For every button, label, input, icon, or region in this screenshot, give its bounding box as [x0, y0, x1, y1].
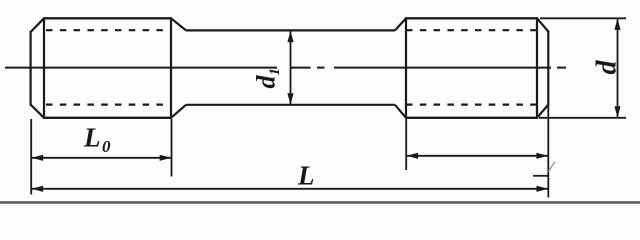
- taper shank-to-right top: [395, 18, 406, 30]
- dimension d: top arrowhead: [614, 18, 620, 30]
- left thread minor-diameter dashed line bottom: [46, 103, 171, 105]
- svg-text:d: d: [592, 60, 623, 75]
- dimension d1: bottom arrowhead: [287, 93, 293, 105]
- stud body: left end chamfer top diagonal: [31, 18, 44, 32]
- dimension L0: dimension line: [31, 157, 171, 159]
- faint slash mark: [549, 162, 556, 172]
- dimension b: right arrowhead: [536, 153, 548, 159]
- dimension d: bottom extension line: [539, 117, 626, 119]
- right end face: [547, 31, 549, 106]
- right threaded section bottom edge: [406, 117, 538, 119]
- svg-text:L0: L0: [83, 123, 111, 157]
- dimension b: left arrowhead: [407, 153, 419, 159]
- right end chamfer top diagonal: [537, 18, 548, 31]
- dimension d: bottom arrowhead: [614, 106, 620, 118]
- taper shank-to-right bottom: [395, 105, 406, 118]
- left thread minor-diameter dashed line top: [46, 29, 171, 31]
- svg-text:L: L: [297, 161, 315, 191]
- right end chamfer bottom diagonal: [537, 105, 548, 118]
- right chamfer edge vertical: [536, 17, 538, 119]
- centerline segment 4: [334, 67, 551, 69]
- dimension b (right thread length): dimension line: [406, 155, 548, 157]
- centerline dash 5: [557, 67, 566, 69]
- bottom grey separator bar: [0, 201, 640, 204]
- extension line of right thread start (x=406): [405, 119, 407, 170]
- dimension L0: right arrowhead: [160, 155, 172, 161]
- svg-text:d1: d1: [252, 68, 284, 89]
- stud body: left chamfer edge vertical: [43, 17, 45, 119]
- dimension d1: top arrowhead: [287, 31, 293, 42]
- taper left-to-shank bottom: [171, 105, 186, 118]
- left thread runout vertical: [170, 17, 172, 119]
- stud body: left end chamfer bottom diagonal: [31, 105, 44, 118]
- short tick line above L arrow: [533, 175, 549, 177]
- right thread start vertical: [405, 17, 407, 119]
- dimension d1: vertical dimension line: [290, 32, 292, 104]
- dimension L: left arrowhead: [32, 186, 43, 192]
- extension line left (x=31): [30, 119, 32, 195]
- taper left-to-shank top: [171, 18, 186, 30]
- centerline dash 2: [291, 67, 311, 69]
- dimension L: dimension line: [31, 188, 548, 190]
- dimension d: top extension line: [540, 17, 626, 19]
- shank top edge: [186, 29, 395, 31]
- extension line of left thread end (x=171.5): [171, 119, 173, 177]
- centerline segment 1: [5, 67, 277, 69]
- dimension L0: left arrowhead: [32, 155, 43, 161]
- dimension d: vertical dimension line: [617, 19, 619, 117]
- right thread minor-diameter dashed line top: [406, 29, 536, 31]
- dimension L: right arrowhead: [537, 186, 549, 192]
- shank bottom edge: [186, 104, 395, 106]
- stud body: left threaded section bottom edge: [44, 117, 172, 119]
- extension line right end (x=548.3): [547, 106, 549, 198]
- centerline dash 3: [317, 67, 325, 69]
- stud body: left end face: [30, 31, 32, 106]
- right thread minor-diameter dashed line bottom: [406, 103, 536, 105]
- right threaded section top edge: [406, 17, 538, 19]
- stud body: left threaded section top edge: [44, 17, 172, 19]
- area below bar: [0, 204, 640, 207]
